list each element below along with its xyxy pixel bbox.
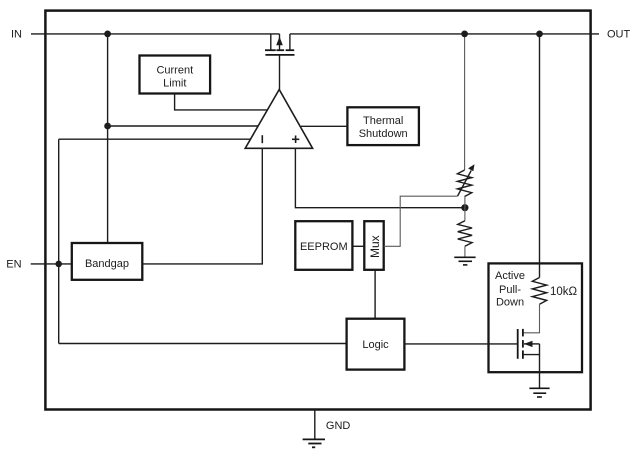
resistor lower feedback bbox=[458, 221, 472, 247]
svg-text:10kΩ: 10kΩ bbox=[550, 286, 578, 298]
node junction dot on EN line bbox=[55, 261, 62, 268]
node feedback junction dot bbox=[461, 204, 468, 211]
wire op-amp to Thermal Shutdown bbox=[301, 125, 347, 127]
ground symbol pulldown bbox=[529, 387, 549, 389]
box Logic bbox=[347, 319, 405, 370]
node junction dot on IN rail bbox=[104, 31, 111, 38]
wire Mux wiper to adjustable resistor bbox=[384, 196, 458, 246]
box Active Pull-Down bbox=[489, 263, 583, 372]
transistor pass PMOS gate bar bbox=[265, 54, 294, 56]
wire Mux to Logic bbox=[374, 270, 376, 319]
ground symbol feedback divider bbox=[454, 256, 475, 258]
wire feedback node to lower resistor bbox=[464, 208, 466, 221]
svg-text:Logic: Logic bbox=[362, 339, 389, 351]
wire OUT rail down to 10k resistor bbox=[539, 34, 541, 278]
svg-text:IN: IN bbox=[11, 29, 22, 41]
transistor pass PMOS body stub with arrow bbox=[279, 34, 281, 50]
wire Current Limit to op-amp bbox=[175, 94, 268, 110]
wire from junction to op-amp left edge bbox=[108, 125, 258, 127]
wire adjustable resistor to feedback node bbox=[464, 197, 466, 208]
svg-text:Pull-: Pull- bbox=[499, 284, 521, 296]
svg-text:EN: EN bbox=[6, 259, 21, 271]
svg-text:OUT: OUT bbox=[607, 29, 631, 41]
box Current Limit bbox=[140, 56, 211, 94]
svg-text:GND: GND bbox=[326, 420, 351, 432]
wire NMOS source to ground bbox=[539, 344, 541, 388]
transistor pulldown NMOS channel segments bbox=[522, 329, 524, 337]
svg-text:Active: Active bbox=[495, 270, 525, 282]
adjustable resistor wiper arrow bbox=[458, 171, 472, 197]
outer chip boundary box bbox=[45, 11, 590, 410]
transistor pass PMOS channel segments bbox=[265, 49, 276, 51]
wire EN to Logic bbox=[59, 343, 347, 345]
wire GND stem from boundary bbox=[314, 410, 316, 439]
ground symbol GND pin bbox=[303, 438, 325, 440]
transistor pass PMOS drain stub bbox=[289, 34, 291, 50]
box Thermal Shutdown bbox=[347, 107, 419, 145]
node junction dot OUT rail left bbox=[461, 31, 468, 38]
svg-text:Down: Down bbox=[496, 297, 524, 309]
svg-text:Limit: Limit bbox=[163, 77, 186, 89]
svg-text:Thermal: Thermal bbox=[363, 115, 403, 127]
op-amp error amplifier triangle bbox=[245, 90, 312, 149]
wire vertical from IN rail to Bandgap bbox=[107, 34, 109, 243]
box EEPROM bbox=[295, 221, 352, 270]
wire 10k resistor to FET drain bbox=[523, 304, 540, 333]
box Bandgap bbox=[72, 243, 143, 280]
wire op-amp plus input to feedback node bbox=[295, 148, 465, 207]
wire EN to op-amp enable input bbox=[59, 138, 251, 140]
wire EEPROM to Mux bbox=[352, 245, 364, 247]
wire gate lead to op-amp apex bbox=[279, 55, 281, 90]
node junction dot OUT rail right bbox=[536, 31, 543, 38]
resistor 10k bbox=[532, 278, 546, 305]
transistor pulldown NMOS body arrow bbox=[524, 343, 540, 345]
svg-text:Current: Current bbox=[156, 65, 193, 77]
svg-text:Shutdown: Shutdown bbox=[359, 128, 408, 140]
transistor pulldown NMOS gate bar bbox=[517, 329, 519, 359]
wire IN lead and left rail bbox=[31, 33, 280, 35]
box Mux bbox=[364, 221, 383, 270]
wire OUT rail down to adjustable resistor bbox=[464, 34, 466, 170]
resistor adjustable top feedback bbox=[457, 170, 471, 197]
wire EN lead bbox=[31, 263, 72, 265]
op-amp minus input mark bbox=[261, 135, 263, 143]
wire Bandgap to op-amp minus input bbox=[142, 148, 262, 264]
svg-text:EEPROM: EEPROM bbox=[300, 241, 348, 253]
transistor pulldown NMOS source connection bbox=[523, 354, 540, 356]
wire OUT rail bbox=[290, 33, 599, 35]
svg-text:Mux: Mux bbox=[368, 235, 382, 258]
wire lower resistor to ground bbox=[464, 246, 466, 257]
svg-text:Bandgap: Bandgap bbox=[85, 258, 129, 270]
node junction dot at op-amp tap bbox=[104, 123, 111, 130]
op-amp plus input mark bbox=[292, 138, 299, 140]
wire EN vertical bus bbox=[58, 139, 60, 343]
wire Logic to pulldown FET gate bbox=[404, 343, 517, 345]
resistor pass FET source stub bbox=[270, 34, 272, 50]
